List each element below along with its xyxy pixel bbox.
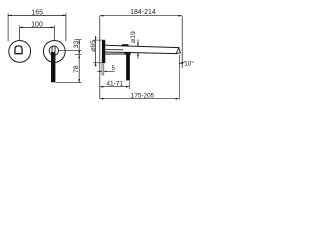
dimension line 165	[8, 14, 66, 16]
svg-text:41-71: 41-71	[106, 80, 123, 87]
extension line 100 right	[53, 25, 55, 40]
handle stem underside	[105, 53, 124, 55]
handle collar (black band on top)	[122, 44, 129, 46]
wall extension below plate	[101, 63, 103, 75]
dimension line 100	[20, 26, 55, 28]
svg-text:100: 100	[31, 22, 43, 29]
spout tube (side view, tapered)	[105, 45, 178, 53]
dim 33 top tick	[75, 39, 82, 41]
wall plate (side view)	[102, 40, 105, 63]
svg-text:33: 33	[73, 41, 80, 49]
svg-text:78: 78	[73, 65, 80, 73]
wall face line (side view)	[99, 16, 101, 99]
svg-text:10°: 10°	[184, 59, 194, 67]
spout cross-section (tombstone)	[15, 46, 22, 54]
escutcheon right circle (front view)	[43, 41, 65, 63]
dim 33 bottom tick	[75, 54, 82, 56]
dim 5 arrows	[97, 70, 114, 72]
handle base inner circle	[49, 46, 58, 55]
handle blade (front view)	[51, 52, 55, 82]
extension line 165 right	[65, 13, 67, 41]
handle pivot head	[125, 52, 131, 55]
svg-text:175-205: 175-205	[131, 92, 155, 99]
blade extension line	[128, 81, 130, 89]
dim d65 top tick	[93, 39, 105, 41]
handle blade (side view)	[126, 53, 130, 81]
svg-text:5: 5	[112, 66, 116, 72]
spout tip 10deg cut	[176, 48, 180, 54]
plate front extension	[103, 63, 105, 75]
dimension line 78	[78, 55, 80, 83]
handle stem slot	[52, 46, 55, 52]
dimension line 41-71	[100, 86, 130, 88]
dimension line d65 (outside arrows)	[95, 36, 97, 66]
spout inner seam	[105, 49, 123, 51]
dim d65 bottom tick	[93, 62, 105, 64]
svg-text:184-214: 184-214	[130, 9, 156, 16]
dimension line 184-214	[100, 15, 182, 17]
centerline stub right circle	[58, 49, 81, 51]
svg-text:165: 165	[31, 10, 43, 17]
svg-text:⌀19: ⌀19	[130, 31, 137, 43]
extension line 100 left	[19, 25, 21, 40]
escutcheon left circle (front view)	[9, 41, 31, 63]
angle 10deg arrow	[179, 62, 183, 64]
spout tip extension line	[178, 55, 180, 99]
dimension line 175-205	[100, 98, 179, 100]
right extension line	[181, 16, 183, 68]
extension line 165 left	[7, 13, 9, 41]
dim d19 line	[137, 39, 139, 58]
dimension line 33	[78, 40, 80, 55]
svg-text:⌀65: ⌀65	[90, 40, 97, 52]
blade bottom extension	[56, 82, 82, 84]
